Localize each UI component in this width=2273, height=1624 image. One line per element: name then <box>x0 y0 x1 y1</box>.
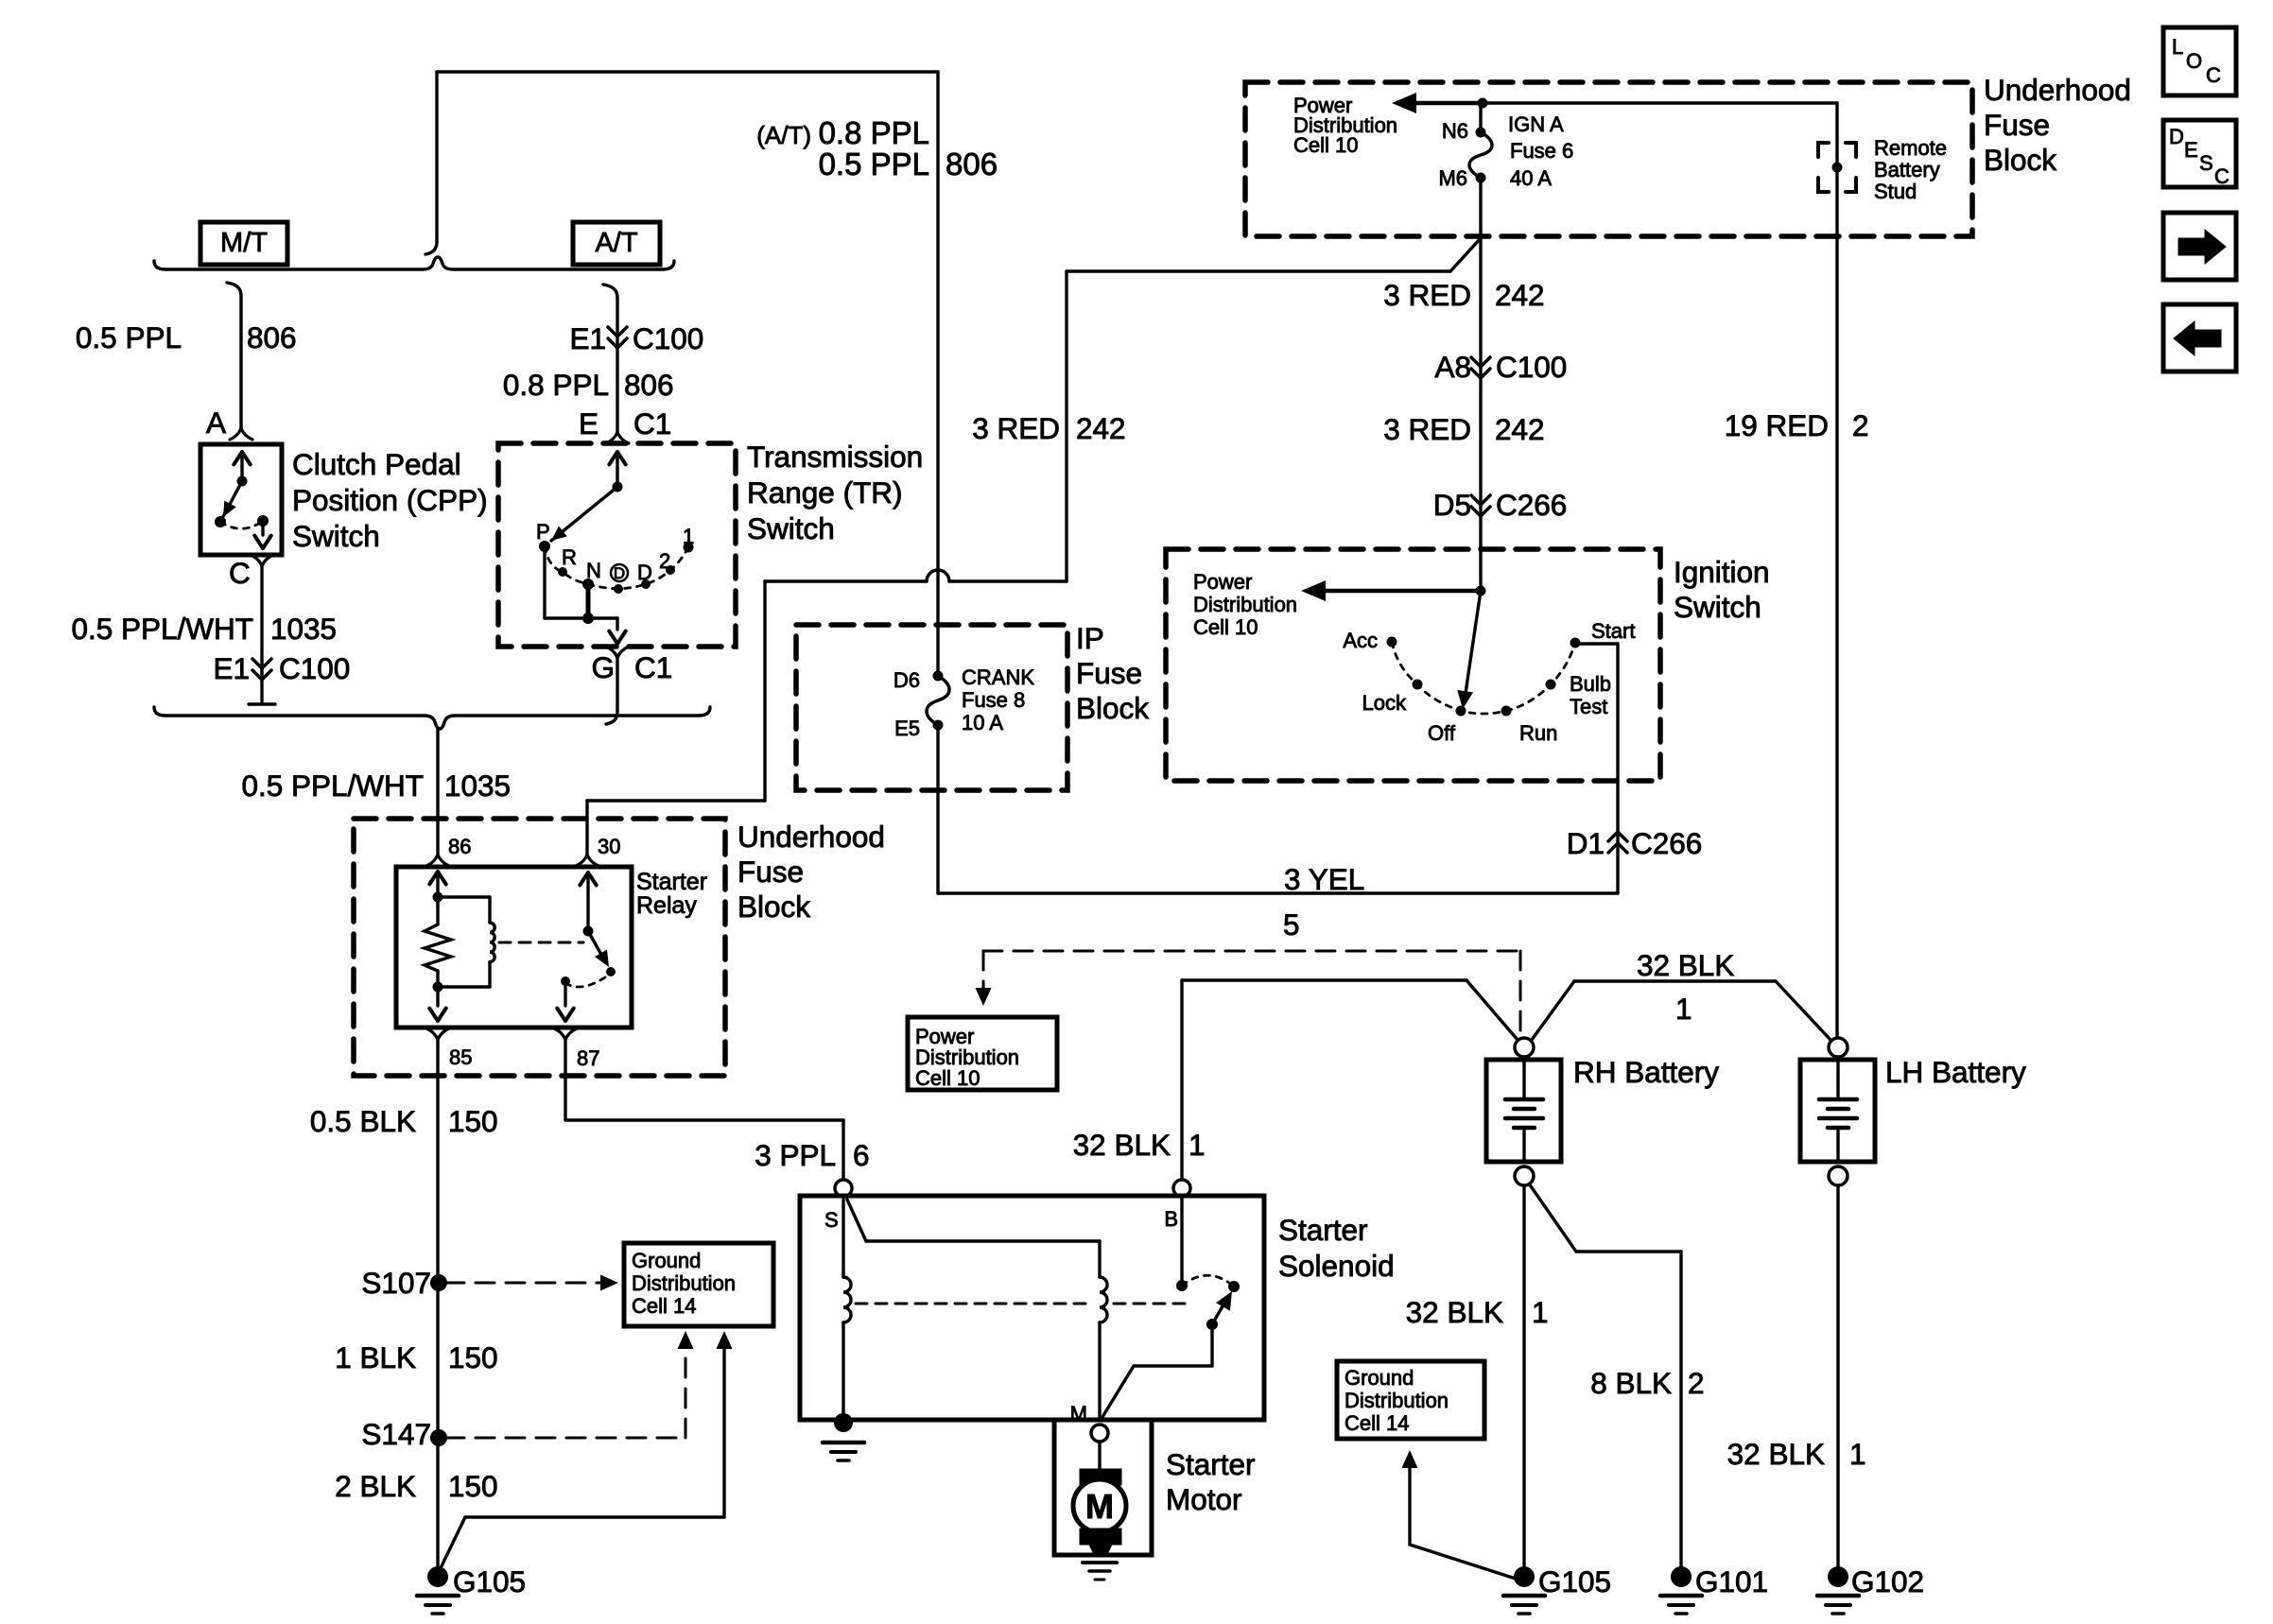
svg-text:1: 1 <box>683 525 694 548</box>
svg-text:G105: G105 <box>1538 1564 1611 1598</box>
svg-text:0.5 PPL: 0.5 PPL <box>76 320 182 354</box>
svg-text:10 A: 10 A <box>962 711 1003 734</box>
svg-text:C100: C100 <box>633 321 703 355</box>
svg-text:R: R <box>562 545 577 569</box>
svg-text:Ground: Ground <box>1345 1366 1414 1390</box>
svg-text:S107: S107 <box>361 1266 431 1300</box>
svg-text:Remote: Remote <box>1874 136 1947 160</box>
svg-text:2: 2 <box>1852 408 1869 442</box>
svg-text:N: N <box>586 559 601 582</box>
svg-text:150: 150 <box>448 1469 498 1503</box>
svg-text:3 RED: 3 RED <box>972 411 1060 445</box>
svg-text:242: 242 <box>1076 411 1126 445</box>
svg-text:Starter: Starter <box>1278 1213 1368 1247</box>
svg-text:G: G <box>591 650 615 684</box>
svg-text:2: 2 <box>1688 1366 1705 1400</box>
svg-text:D: D <box>2169 125 2184 148</box>
svg-text:Motor: Motor <box>1166 1482 1242 1516</box>
svg-text:Ignition: Ignition <box>1674 555 1770 589</box>
svg-text:Off: Off <box>1428 721 1456 745</box>
svg-text:Fuse: Fuse <box>1076 656 1142 690</box>
svg-text:Bulb: Bulb <box>1570 672 1611 696</box>
svg-text:806: 806 <box>624 368 674 402</box>
svg-text:2: 2 <box>659 549 670 573</box>
svg-text:Block: Block <box>1076 691 1149 725</box>
svg-text:Solenoid: Solenoid <box>1278 1249 1395 1283</box>
svg-text:Cell 14: Cell 14 <box>632 1294 696 1318</box>
svg-text:0.5 PPL: 0.5 PPL <box>819 147 929 181</box>
svg-text:G101: G101 <box>1695 1564 1768 1598</box>
svg-text:Fuse 8: Fuse 8 <box>962 688 1025 712</box>
svg-text:D6: D6 <box>894 668 920 692</box>
svg-text:Starter: Starter <box>636 869 707 895</box>
svg-text:Fuse 6: Fuse 6 <box>1510 139 1573 163</box>
svg-text:Switch: Switch <box>747 511 835 545</box>
svg-text:Range (TR): Range (TR) <box>747 475 903 510</box>
svg-text:0.5 PPL/WHT: 0.5 PPL/WHT <box>241 769 424 803</box>
svg-text:85: 85 <box>449 1045 472 1069</box>
svg-text:150: 150 <box>448 1340 498 1374</box>
svg-text:87: 87 <box>577 1046 599 1070</box>
svg-text:1035: 1035 <box>270 612 337 646</box>
svg-text:C100: C100 <box>1496 350 1567 384</box>
svg-text:IGN A: IGN A <box>1508 112 1564 136</box>
svg-text:32 BLK: 32 BLK <box>1073 1128 1171 1162</box>
svg-text:0.5 BLK: 0.5 BLK <box>310 1104 416 1138</box>
svg-text:C1: C1 <box>634 650 672 684</box>
svg-text:Power: Power <box>1193 570 1252 594</box>
svg-text:D5: D5 <box>1433 488 1471 522</box>
svg-text:1: 1 <box>1675 992 1692 1026</box>
svg-text:E: E <box>2184 138 2198 162</box>
svg-text:Lock: Lock <box>1362 691 1407 715</box>
svg-text:Battery: Battery <box>1874 158 1940 181</box>
svg-text:3 YEL: 3 YEL <box>1284 862 1364 896</box>
svg-text:L: L <box>2172 35 2183 59</box>
svg-text:Starter: Starter <box>1166 1447 1256 1481</box>
svg-text:Distribution: Distribution <box>632 1271 736 1295</box>
svg-text:Switch: Switch <box>1674 590 1761 624</box>
svg-text:806: 806 <box>247 320 297 354</box>
svg-text:D: D <box>614 564 625 582</box>
svg-text:1: 1 <box>1189 1128 1206 1162</box>
svg-text:M: M <box>1070 1402 1087 1425</box>
svg-text:1: 1 <box>1849 1437 1866 1471</box>
svg-text:Cell 14: Cell 14 <box>1345 1411 1409 1435</box>
svg-text:S: S <box>2199 151 2213 175</box>
svg-text:(A/T): (A/T) <box>756 121 811 149</box>
svg-text:Block: Block <box>1984 143 2056 177</box>
svg-text:30: 30 <box>598 835 620 858</box>
svg-text:Ground: Ground <box>632 1249 701 1272</box>
svg-text:Transmission: Transmission <box>747 440 923 474</box>
svg-text:242: 242 <box>1495 412 1545 446</box>
svg-text:Relay: Relay <box>636 892 697 919</box>
svg-text:A/T: A/T <box>595 228 637 258</box>
svg-text:Underhood: Underhood <box>1984 73 2131 107</box>
svg-text:Position (CPP): Position (CPP) <box>292 483 488 517</box>
svg-text:Fuse: Fuse <box>737 855 804 889</box>
svg-text:A: A <box>206 406 226 440</box>
svg-text:E5: E5 <box>894 717 920 740</box>
svg-text:3 RED: 3 RED <box>1383 278 1471 312</box>
svg-text:N6: N6 <box>1442 119 1468 143</box>
svg-text:C1: C1 <box>633 406 671 441</box>
svg-text:Cell 10: Cell 10 <box>1193 615 1258 639</box>
svg-text:Switch: Switch <box>292 519 380 553</box>
svg-text:5: 5 <box>1283 907 1300 942</box>
svg-text:LH Battery: LH Battery <box>1885 1055 2026 1089</box>
svg-text:C100: C100 <box>279 651 350 685</box>
svg-text:Fuse: Fuse <box>1984 108 2050 142</box>
svg-text:C: C <box>2206 63 2221 87</box>
svg-text:G102: G102 <box>1851 1564 1924 1598</box>
svg-text:Run: Run <box>1519 721 1557 745</box>
svg-text:Clutch Pedal: Clutch Pedal <box>292 447 461 481</box>
svg-text:Stud: Stud <box>1874 180 1917 203</box>
svg-text:1 BLK: 1 BLK <box>335 1340 416 1374</box>
svg-text:A8: A8 <box>1434 350 1471 384</box>
svg-text:P: P <box>536 520 550 544</box>
svg-text:Distribution: Distribution <box>1345 1389 1449 1412</box>
svg-text:3 RED: 3 RED <box>1383 412 1471 446</box>
svg-text:150: 150 <box>448 1104 498 1138</box>
svg-text:Block: Block <box>737 890 810 924</box>
svg-text:19 RED: 19 RED <box>1725 408 1829 442</box>
svg-text:Distribution: Distribution <box>1193 593 1297 616</box>
svg-text:M: M <box>1085 1487 1114 1526</box>
svg-text:C266: C266 <box>1496 488 1567 522</box>
svg-text:242: 242 <box>1495 278 1545 312</box>
svg-text:8 BLK: 8 BLK <box>1590 1366 1672 1400</box>
svg-text:E1: E1 <box>569 321 606 355</box>
svg-text:RH Battery: RH Battery <box>1573 1055 1719 1089</box>
svg-text:806: 806 <box>946 147 998 181</box>
svg-text:D1: D1 <box>1567 826 1605 860</box>
svg-text:Cell 10: Cell 10 <box>1293 133 1358 157</box>
svg-text:B: B <box>1164 1207 1178 1231</box>
svg-text:M6: M6 <box>1438 166 1467 190</box>
svg-text:S: S <box>824 1208 839 1232</box>
svg-text:O: O <box>2186 49 2202 73</box>
svg-text:32 BLK: 32 BLK <box>1637 948 1734 982</box>
svg-text:0.8 PPL: 0.8 PPL <box>503 368 609 402</box>
svg-text:G105: G105 <box>453 1564 526 1598</box>
svg-text:C: C <box>2214 164 2230 188</box>
svg-text:Cell 10: Cell 10 <box>915 1066 980 1090</box>
svg-text:0.5 PPL/WHT: 0.5 PPL/WHT <box>71 612 253 646</box>
svg-text:Acc: Acc <box>1343 629 1378 652</box>
svg-text:Start: Start <box>1591 619 1635 643</box>
svg-text:C: C <box>229 556 251 590</box>
svg-text:1035: 1035 <box>444 769 511 803</box>
svg-text:40 A: 40 A <box>1510 166 1552 190</box>
svg-text:Test: Test <box>1570 695 1607 718</box>
svg-text:32 BLK: 32 BLK <box>1727 1437 1825 1471</box>
svg-text:32 BLK: 32 BLK <box>1406 1295 1503 1329</box>
svg-text:86: 86 <box>448 835 471 858</box>
svg-text:E1: E1 <box>213 651 250 685</box>
svg-text:3 PPL: 3 PPL <box>755 1138 836 1172</box>
svg-text:6: 6 <box>853 1138 870 1172</box>
svg-text:1: 1 <box>1532 1295 1549 1329</box>
svg-text:E: E <box>579 406 599 441</box>
svg-text:2 BLK: 2 BLK <box>335 1469 416 1503</box>
svg-text:D: D <box>637 561 652 584</box>
svg-text:M/T: M/T <box>220 228 268 258</box>
svg-text:S147: S147 <box>361 1417 431 1451</box>
svg-text:CRANK: CRANK <box>962 665 1034 689</box>
svg-text:0.8 PPL: 0.8 PPL <box>819 115 929 150</box>
svg-text:IP: IP <box>1076 621 1104 655</box>
svg-text:Underhood: Underhood <box>737 820 885 854</box>
svg-text:C266: C266 <box>1631 826 1702 860</box>
